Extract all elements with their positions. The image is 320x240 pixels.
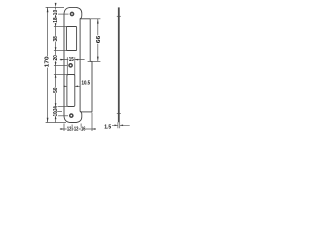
extension line bottom [46, 122, 66, 124]
arrow bottom chain right [92, 128, 95, 130]
extension line cutout2 top [54, 74, 67, 76]
arrow chain cutout1 top [55, 23, 57, 26]
arrow 66 top [97, 19, 99, 24]
extension line hole1 [54, 13, 69, 15]
extension line label 24 [54, 110, 62, 112]
extension line 15 cutout2 right [74, 57, 76, 74]
bottom ext line flange outer [91, 113, 93, 132]
arrow chain hole2 [55, 62, 57, 65]
strike plate outline front view [64, 7, 82, 122]
extension line cutout1 bottom [54, 50, 67, 52]
svg-text:38: 38 [53, 36, 59, 41]
dim line 10.5 [64, 85, 80, 87]
svg-text:12: 12 [74, 127, 79, 133]
bend tick bottom [117, 113, 121, 115]
side profile bar [118, 7, 120, 122]
bottom ext line bend [80, 124, 82, 132]
side view [112, 7, 130, 128]
extension line cutout2 bottom [54, 106, 67, 108]
arrow chain hole3 [55, 116, 57, 119]
svg-text:24: 24 [53, 106, 59, 111]
extension line hole3 [54, 115, 68, 117]
bend tick top [117, 15, 121, 17]
arrow bottom chain left [61, 128, 64, 130]
screw hole middle [69, 64, 72, 67]
svg-text:170: 170 [44, 56, 50, 67]
arrow chain cutout2 bottom [55, 103, 57, 106]
flange step [90, 60, 92, 62]
arrow chain top outside [55, 3, 57, 8]
svg-text:12: 12 [67, 127, 72, 133]
dim line 170 [47, 7, 49, 122]
arrow 66 bottom [97, 57, 99, 62]
svg-text:10.5: 10.5 [82, 81, 91, 87]
arrow 170 bottom [47, 118, 49, 123]
arrow chain hole1 [55, 14, 57, 17]
extension line top [46, 6, 64, 8]
svg-text:50: 50 [53, 88, 59, 93]
svg-text:18: 18 [53, 17, 59, 22]
svg-text:1.5: 1.5 [104, 125, 111, 131]
extension line hole2 [54, 64, 67, 66]
svg-text:10: 10 [53, 112, 59, 117]
text masks [44, 10, 101, 132]
flange upper outer edge [89, 19, 91, 62]
extension line cutout1 top [54, 26, 67, 28]
screw hole bottom [70, 114, 73, 117]
flange top edge [80, 18, 90, 20]
extension line 66 top [90, 18, 100, 20]
svg-text:66: 66 [96, 36, 102, 44]
dim line 66 [97, 19, 99, 62]
svg-text:16: 16 [81, 127, 86, 133]
extension line 66 bottom [88, 60, 101, 62]
bottom ext line plate left [63, 124, 65, 132]
extension line 15 cutout2 left [66, 57, 68, 74]
ext lines thickness [118, 122, 120, 128]
svg-text:20: 20 [53, 55, 59, 60]
latch cutout [66, 27, 76, 51]
arrow 10.5 left [64, 85, 67, 87]
arrow 1.5 right [120, 124, 123, 126]
bottom ext line centre [71, 125, 73, 132]
arrow 10.5 right [75, 85, 78, 87]
svg-text:10: 10 [53, 10, 59, 15]
svg-text:15: 15 [69, 57, 74, 63]
flange lower outer edge [91, 61, 93, 112]
dim chain line [55, 7, 57, 122]
flange bottom edge [80, 111, 92, 113]
deadbolt cutout [67, 75, 75, 107]
dim line 1.5 [112, 124, 130, 126]
bottom dim line [60, 128, 96, 130]
arrow 170 top [47, 7, 49, 12]
arrow 15 right [75, 59, 78, 61]
arrow chain cutout1 bottom [55, 47, 57, 50]
dim line 15 [60, 59, 85, 61]
arrow chain cutout2 top [55, 75, 57, 78]
arrow 1.5 left [115, 124, 118, 126]
screw hole top [70, 12, 73, 15]
arrow 15 left [61, 59, 64, 61]
